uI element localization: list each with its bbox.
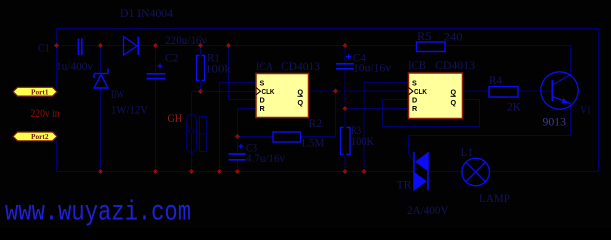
svg-text:R5: R5 (417, 29, 432, 43)
svg-text:1.5M: 1.5M (301, 136, 325, 150)
wire top bypass from Port1 corner to right side (57, 28, 599, 30)
wire ICA Q to ICB CLK (309, 90, 409, 92)
resistor R2 (273, 132, 301, 142)
svg-text:R2: R2 (309, 116, 323, 130)
node bottom rail R3 (343, 169, 348, 174)
resistor R3 (341, 128, 351, 155)
svg-text:4.7u/16v: 4.7u/16v (246, 151, 285, 165)
diode D1 (124, 37, 139, 56)
resistor R4 (489, 87, 518, 98)
wire ICB D to Q-bar loop (383, 99, 409, 101)
lamp L1 (462, 158, 490, 186)
svg-text:2K: 2K (507, 100, 521, 114)
capacitor C4 (336, 54, 354, 69)
wire ICB Q to R4 to base (463, 90, 490, 92)
node CLK junction (198, 89, 203, 94)
port Port1 (13, 87, 57, 96)
svg-text:ICA: ICA (256, 59, 273, 73)
svg-text:10u/16v: 10u/16v (353, 61, 391, 75)
svg-text:CD4013: CD4013 (435, 58, 475, 72)
wire Port1 vertical (56, 29, 58, 88)
svg-text:Port2: Port2 (31, 133, 49, 141)
wire bottom rail segments (57, 171, 415, 173)
svg-text:www.wuyazi.com: www.wuyazi.com (5, 198, 191, 229)
svg-text:R4: R4 (489, 73, 502, 87)
capacitor C1 plates (79, 39, 82, 56)
node Q junction (333, 89, 338, 94)
node top rail R1 (198, 43, 203, 48)
svg-text:240: 240 (444, 30, 463, 44)
triac TR (414, 152, 428, 191)
wire ICA R pin / C3 branch (238, 108, 257, 110)
wire emitter to triac gate (570, 104, 572, 136)
wire main top rail segments (57, 45, 79, 47)
svg-text:100k: 100k (205, 62, 231, 76)
wire CLK net: GH top lead to ICA CLK pin (192, 91, 257, 93)
wire Port2 vertical (56, 141, 58, 172)
svg-text:GH: GH (168, 111, 183, 125)
node top rail C1 left (54, 43, 59, 48)
node bottom rail ICB S line (362, 169, 367, 174)
port Port2 (13, 132, 57, 141)
wire ICA D pin to top rail (228, 46, 230, 100)
wire triac gate diagonal (409, 154, 414, 162)
node bottom rail zener (98, 169, 103, 174)
svg-text:ICB: ICB (408, 58, 426, 72)
svg-text:100K: 100K (351, 134, 374, 148)
node top rail zener (98, 43, 103, 48)
wire reset net to ICB R pin (345, 108, 409, 110)
node bottom rail GH (189, 169, 194, 174)
resistor R1 (197, 56, 205, 81)
svg-text:CD4013: CD4013 (281, 59, 320, 73)
wire collector drop (570, 46, 572, 75)
svg-text:2A/400V: 2A/400V (407, 203, 449, 217)
svg-text:Q: Q (451, 88, 457, 97)
node top rail D line (226, 43, 231, 48)
svg-text:C2: C2 (165, 51, 179, 65)
node top rail C2 (153, 43, 158, 48)
svg-text:L1: L1 (461, 145, 474, 159)
svg-text:C1: C1 (38, 41, 50, 55)
transistor V1 9013 (541, 72, 578, 109)
svg-text:220v in: 220v in (31, 106, 60, 120)
svg-text:DW: DW (111, 87, 124, 101)
svg-text:9013: 9013 (543, 115, 567, 129)
svg-text:Port1: Port1 (31, 89, 49, 97)
starter GH (187, 115, 207, 153)
wire right vertical down to lamp (598, 29, 600, 172)
flip-flop ICB CD4013 box (408, 58, 475, 119)
wire R3 leads (344, 109, 346, 128)
svg-text:1W/12V: 1W/12V (111, 103, 148, 117)
svg-text:TR: TR (397, 178, 412, 192)
op-amp U1 : flip-flop ICA CD4013 box (256, 59, 320, 118)
svg-text:R: R (260, 104, 266, 113)
svg-text:V1: V1 (581, 103, 592, 117)
svg-text:1u/400v: 1u/400v (56, 59, 93, 73)
svg-text:Q: Q (451, 98, 457, 107)
wire C2 leads (155, 46, 157, 74)
node bottom rail C3 (235, 169, 240, 174)
svg-text:LAMP: LAMP (479, 191, 510, 205)
wire R1 leads (200, 46, 202, 56)
capacitor C3 (229, 144, 246, 160)
wire ICB S pin to bottom rail (364, 82, 409, 84)
node bottom rail C2 (153, 169, 158, 174)
node reset junction (343, 106, 348, 111)
wire zener leads (100, 46, 102, 75)
node C3 R2 junction (235, 134, 240, 139)
svg-text:Q: Q (298, 98, 304, 107)
svg-text:R: R (412, 104, 418, 113)
svg-text:Q: Q (298, 88, 304, 97)
wire R2 leads (238, 136, 274, 138)
zener DW (94, 69, 108, 89)
resistor R5 (417, 42, 446, 52)
node bottom rail S line (217, 169, 222, 174)
wire ICA S pin to bottom rail (220, 82, 257, 84)
node top rail C4 (343, 43, 348, 48)
wire C4 leads (344, 46, 346, 64)
capacitor C2 (147, 64, 166, 79)
svg-text:D1 IN4004: D1 IN4004 (120, 6, 173, 20)
